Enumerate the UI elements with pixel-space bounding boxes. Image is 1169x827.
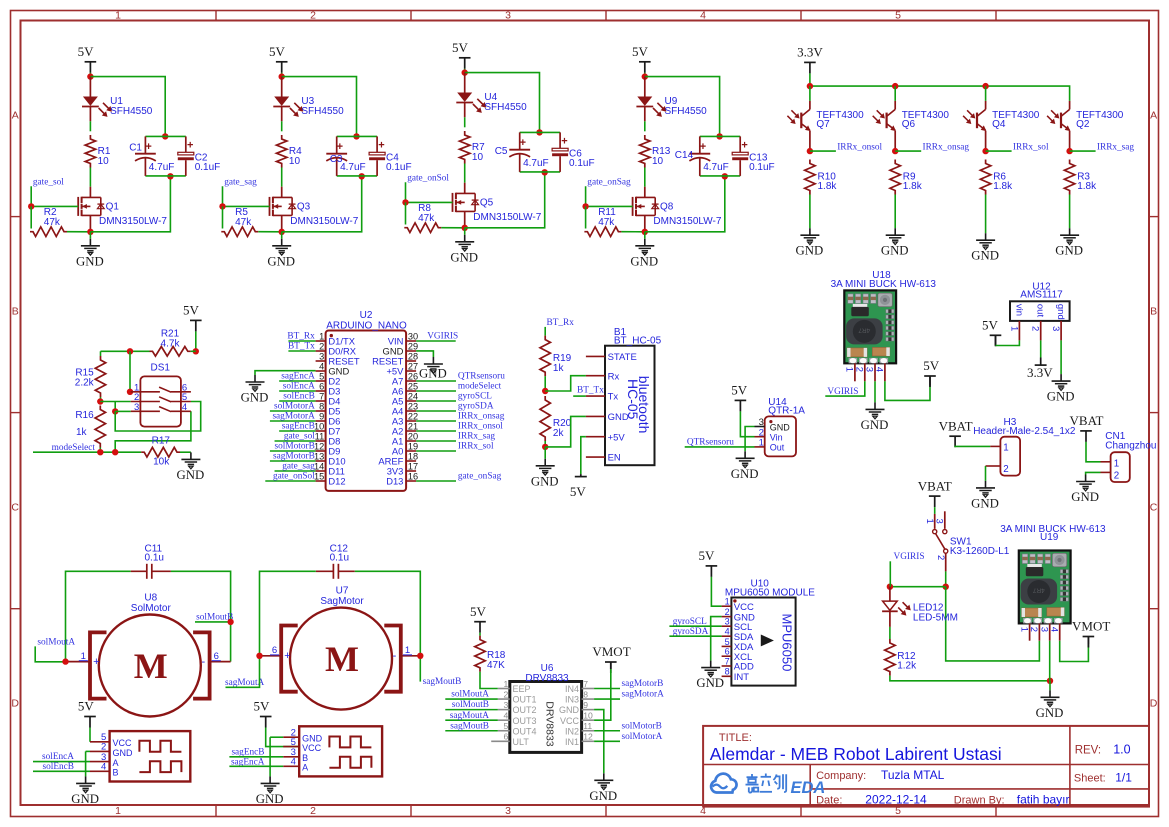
pin 6 U7 [260,655,282,657]
svg-text:4: 4 [182,402,187,413]
LED U4 SFH4550 [456,73,527,118]
wire [464,164,466,183]
wire [416,351,433,357]
resistor R9 1.8k [890,160,923,195]
node cap bottom junction C3 [359,173,365,179]
wire [416,430,456,432]
EasyEDA logo [711,774,825,798]
wire [416,410,456,412]
pin 2 D0/RX U2 [316,341,357,356]
svg-text:4.7uF: 4.7uF [340,162,366,173]
wire [945,571,947,586]
svg-text:2: 2 [1030,326,1041,331]
pin 1 H3 [990,443,1008,454]
resistor R12 1.2k [885,639,917,676]
ground [269,776,271,783]
pin 30 VIN U2 [388,331,418,346]
svg-text:12: 12 [314,441,324,451]
wire [544,376,546,391]
MOSFET Q3 DMN3150LW-7 [270,187,359,232]
svg-text:+: + [284,650,290,662]
pin 25 A6 U2 [392,381,418,396]
svg-text:DRV8833: DRV8833 [543,701,555,746]
wire [1086,472,1101,474]
node DS1 pin3 junction [112,408,118,414]
node cap top junction C3 [353,133,359,139]
pin 5 OUT4 U6 [498,721,537,736]
svg-text:OUT1: OUT1 [513,695,537,705]
svg-text:+5V: +5V [608,432,626,443]
pin 7 D4 U2 [316,391,341,406]
power flag 5V (U12 in) [990,334,1002,336]
svg-text:D: D [11,698,19,710]
wire [445,709,498,711]
IC U14 QTR-1A [765,397,806,456]
pin 26 A7 U2 [392,371,418,386]
node gate junction Q5 [402,199,408,205]
svg-text:0.1uF: 0.1uF [386,162,412,173]
svg-text:21: 21 [408,421,418,431]
svg-text:2: 2 [319,341,324,351]
node cap top junction C1 [162,133,168,139]
svg-text:0.1uF: 0.1uF [569,158,595,169]
svg-text:QTRsensoru: QTRsensoru [458,372,505,382]
svg-text:3.3V: 3.3V [797,45,823,60]
svg-text:2: 2 [310,805,316,817]
wire [279,400,315,402]
svg-text:+: + [741,140,747,152]
pin 14 D11 U2 [314,461,345,476]
pin 3 A encoder U8 [90,752,119,768]
pin 3 U19 [1038,623,1049,640]
svg-text:gate_onSag: gate_onSag [458,472,502,482]
wire [810,150,836,152]
svg-text:GND: GND [1036,706,1064,720]
svg-text:0.1uF: 0.1uF [195,162,221,173]
svg-text:D13: D13 [386,476,403,487]
wire 3.3V rail [810,86,1070,101]
svg-text:0.1uF: 0.1uF [749,162,775,173]
svg-text:Rx: Rx [608,371,620,382]
svg-text:27: 27 [408,361,418,371]
ground [464,228,466,235]
power flag VBAT (SW1) [929,495,941,497]
svg-text:C5: C5 [495,146,508,157]
wire [100,397,102,402]
svg-text:Q2: Q2 [1076,119,1090,130]
wire [288,350,315,352]
svg-text:solMoutA: solMoutA [37,637,75,647]
pin EN B1 [586,453,621,464]
wire [229,765,283,767]
capacitor C4 0.1uF [369,136,411,176]
wire [890,676,1050,681]
wire [270,410,316,412]
svg-text:GND: GND [770,422,791,432]
wire [894,86,896,101]
power flag 5V (U9 block) [639,61,651,63]
wire [191,350,196,352]
power flag VMOT (U19 out) [1083,636,1095,638]
wire [416,440,456,442]
power flag 3.3V (IR receivers) [804,61,816,63]
svg-text:5V: 5V [78,699,95,714]
LED LED12 LED-5MM [882,587,958,627]
ground [809,228,811,235]
resistor R21 4.7k [150,329,191,357]
ground [432,357,434,364]
svg-text:28: 28 [408,351,418,361]
wire [33,770,90,772]
wire [275,440,316,442]
wire [258,231,281,233]
wire [946,587,1040,661]
resistor R4 10 [277,135,303,168]
capacitor C6 0.1uF [552,132,594,172]
svg-text:Q8: Q8 [660,202,674,213]
node R21 right junction [193,348,199,354]
wire [101,350,150,352]
wire [255,371,316,375]
svg-text:SFH4550: SFH4550 [110,106,153,117]
svg-text:16: 16 [408,471,418,481]
pin 1 U19 [1018,623,1029,640]
svg-text:3: 3 [725,617,730,627]
wire [480,672,498,689]
wire [266,728,300,747]
buck module U19 3A MINI BUCK HW-613 [1000,524,1106,623]
svg-text:6: 6 [319,381,324,391]
svg-text:20: 20 [408,431,418,441]
svg-text:GND: GND [450,250,478,264]
svg-text:gate_sag: gate_sag [224,177,257,187]
svg-text:M: M [325,639,359,679]
svg-text:BT_Rx: BT_Rx [547,318,575,328]
node gate junction Q8 [582,203,588,209]
svg-text:5V: 5V [731,383,748,398]
svg-text:IN2: IN2 [565,726,579,736]
wire [89,73,91,77]
svg-text:Out: Out [770,443,785,453]
pin 6 U8 [210,661,231,663]
wire [145,175,185,177]
wire [90,77,165,137]
svg-text:1: 1 [319,331,324,341]
svg-text:Q3: Q3 [297,202,311,213]
node R16 bottom junction [97,449,103,455]
wire [35,646,65,661]
svg-text:23: 23 [408,401,418,411]
svg-text:GND: GND [861,418,889,432]
wire [685,446,755,448]
ground [281,232,283,239]
power flag VMOT (U6) [605,661,617,663]
node cap bottom junction C1 [167,173,173,179]
resistor R3 1.8k [1064,160,1097,195]
buck module U18 3A MINI BUCK HW-613 [831,270,937,363]
svg-text:C14: C14 [675,150,694,161]
node collector junction Q4 [982,148,988,154]
resistor R18 47K [475,636,506,672]
wire [265,480,315,482]
wire [890,586,946,588]
svg-text:gate_sol: gate_sol [284,432,315,442]
pin 18 AREF U2 [378,451,418,466]
node 5V junction U3 [279,73,285,79]
svg-text:IRRx_sag: IRRx_sag [1097,142,1135,152]
pin 1 CN1 [1101,458,1120,469]
svg-text:GND: GND [256,792,284,806]
ground [1085,475,1087,482]
svg-text:2: 2 [1003,464,1008,475]
MOSFET Q8 DMN3150LW-7 [633,187,722,232]
svg-text:0.1u: 0.1u [330,552,349,563]
power flag 5V (DS1 pull-up) [190,319,202,321]
node U7 pin6 junction [256,653,262,659]
pin 5 VCC encoder U8 [90,732,132,748]
svg-text:Q1: Q1 [106,202,120,213]
wire [223,186,270,206]
svg-text:19: 19 [408,441,418,451]
pin 2 U18 [854,363,865,381]
wire [355,571,421,656]
wire [621,231,644,233]
svg-text:10: 10 [314,421,324,431]
ground [544,459,546,466]
pin 3 OUT2 U6 [498,700,537,715]
svg-text:1: 1 [1003,443,1008,454]
wire [281,168,283,187]
wire [545,376,586,391]
pin 1 Out U14 [755,438,785,453]
svg-text:OUT3: OUT3 [513,716,537,726]
wire [279,390,315,392]
svg-text:3: 3 [504,700,509,710]
node 3.3V rail junction Q7 [807,83,813,89]
svg-text:DMN3150LW-7: DMN3150LW-7 [99,216,167,227]
node U8 pin6 junction [227,619,233,625]
svg-text:GND: GND [76,254,104,268]
wire [416,420,456,422]
pin 9 D6 U2 [316,411,341,426]
pin 12 D9 U2 [314,441,340,456]
node cap top junction C5 [536,129,542,135]
svg-text:5V: 5V [183,303,200,318]
wire [33,761,90,763]
wire [85,751,87,776]
svg-text:Vin: Vin [770,433,783,443]
capacitor C14 4.7uF [675,136,729,176]
wire [955,445,990,448]
svg-text:SFH4550: SFH4550 [484,102,527,113]
ground [1060,374,1062,381]
IC U6 DRV8833 [510,663,582,752]
svg-text:GND: GND [696,676,724,690]
wire [445,698,498,700]
svg-text:3: 3 [505,805,511,817]
pin 22 A3 U2 [392,411,418,426]
svg-text:4: 4 [319,361,324,371]
wire [885,381,930,400]
svg-text:GND: GND [971,249,999,263]
ground [644,232,646,239]
wire [406,182,453,202]
wire [669,625,721,627]
svg-text:DMN3150LW-7: DMN3150LW-7 [473,212,541,223]
svg-text:4R7: 4R7 [858,326,870,333]
svg-text:IN1: IN1 [565,737,579,747]
ground [85,776,87,783]
wire [441,227,464,229]
pin 23 A4 U2 [392,401,418,416]
svg-text:11: 11 [315,431,325,441]
capacitor C1 4.7uF [129,136,174,176]
wire [416,390,456,392]
svg-text:24: 24 [408,391,418,401]
wire [874,381,876,402]
svg-text:TITLE:: TITLE: [719,732,752,744]
pin 8 D5 U2 [316,401,341,416]
DIP switch DS1 [131,363,191,427]
pin STATE B1 [586,352,637,363]
svg-text:IN4: IN4 [565,684,579,694]
svg-text:4: 4 [1048,627,1059,632]
node LED12 junction [887,584,893,590]
svg-text:B: B [113,768,119,778]
pin 8 INT U10 [722,667,750,683]
svg-text:IRRx_onsag: IRRx_onsag [923,142,970,152]
resistor R11 47k [584,206,621,236]
node 3.3V rail junction Q4 [982,83,988,89]
svg-text:sagEncB: sagEncB [282,422,315,432]
ground [1069,228,1071,235]
pin 17 3V3 U2 [387,461,418,476]
svg-text:1.8k: 1.8k [818,181,838,192]
svg-text:DS1: DS1 [150,363,170,374]
svg-text:5V: 5V [452,40,469,55]
wire [416,480,456,482]
wire [986,150,1012,152]
svg-text:Tx: Tx [608,392,619,403]
resistor R13 10 [640,135,671,168]
svg-text:OUT2: OUT2 [513,705,537,715]
wire [195,621,231,623]
svg-text:4: 4 [504,711,509,721]
svg-text:GND: GND [241,391,269,405]
wire [270,420,316,422]
node collector junction Q6 [892,148,898,154]
svg-text:GND: GND [531,474,559,488]
MOSFET Q5 DMN3150LW-7 [453,183,542,228]
svg-text:2k: 2k [553,428,565,439]
wire pin5 loop [115,402,201,432]
svg-text:sagMotorA: sagMotorA [272,412,315,422]
resistor R1 10 [85,135,111,168]
LED U1 SFH4550 [82,77,153,122]
pin 4 OUT3 U6 [498,711,537,726]
wire [275,470,316,472]
wire [520,131,560,133]
pin 10 VCC U6 [560,711,594,726]
resistor R17 10k [141,436,180,468]
svg-text:22: 22 [408,411,418,421]
wire [1060,340,1062,374]
svg-text:3: 3 [864,367,875,372]
ground [254,375,256,382]
svg-text:BT_Tx: BT_Tx [577,386,604,396]
svg-text:solEncA: solEncA [283,382,315,392]
svg-text:IN3: IN3 [565,695,579,705]
wire [745,427,754,452]
svg-text:4: 4 [291,757,296,768]
svg-text:VCC: VCC [302,743,322,753]
pin 8 IN3 U6 [565,689,594,704]
svg-text:1: 1 [1018,627,1029,632]
wire [288,340,315,342]
svg-text:sagMoutB: sagMoutB [423,677,462,687]
svg-text:5V: 5V [78,44,95,59]
svg-text:8: 8 [725,667,730,677]
LED U3 SFH4550 [273,77,344,122]
svg-text:GND: GND [113,748,134,758]
svg-text:17: 17 [408,461,418,471]
svg-text:12: 12 [583,732,593,742]
svg-text:5: 5 [725,637,730,647]
pin 28 RESET U2 [372,351,418,366]
svg-text:gate_onSol: gate_onSol [273,472,315,482]
svg-text:-: - [201,656,205,668]
svg-text:1: 1 [924,519,935,524]
svg-text:2022-12-14: 2022-12-14 [865,793,927,807]
svg-text:4: 4 [874,367,885,372]
svg-text:GND: GND [608,412,629,423]
svg-text:8: 8 [319,401,324,411]
svg-text:GND: GND [1055,244,1083,258]
IC U12 AMS1117 [1010,281,1070,321]
svg-text:2: 2 [1028,627,1039,632]
resistor R20 2k [540,396,572,441]
svg-text:Q7: Q7 [816,119,830,130]
node SW1 output junction [943,584,949,590]
svg-text:R16: R16 [75,410,94,421]
node U19 GND junction [1047,678,1053,684]
svg-text:B: B [302,753,308,763]
svg-text:Q5: Q5 [480,198,494,209]
svg-text:+: + [700,141,706,153]
svg-text:BT_Tx: BT_Tx [288,342,315,352]
svg-text:5: 5 [895,10,901,22]
wire [465,73,540,133]
connector CN1 Changzhou [1105,431,1156,482]
wire [281,73,283,77]
svg-text:IRRx_sol: IRRx_sol [1013,142,1049,152]
svg-text:VCC: VCC [560,716,580,726]
svg-text:sagMotorB: sagMotorB [273,452,315,462]
wire [520,171,560,173]
wire [445,730,498,732]
power flag 5V (U18 out) [924,375,936,377]
svg-text:1: 1 [504,679,509,689]
svg-text:4: 4 [101,762,106,773]
svg-text:3: 3 [319,351,324,361]
pin 10 D7 U2 [314,421,340,436]
svg-text:solMotorA: solMotorA [274,402,315,412]
svg-text:SFH4550: SFH4550 [301,106,344,117]
pin 9 GND U6 [559,700,594,715]
svg-text:+: + [378,140,384,152]
node source junction Q8 [642,229,648,235]
svg-text:5V: 5V [982,318,999,333]
